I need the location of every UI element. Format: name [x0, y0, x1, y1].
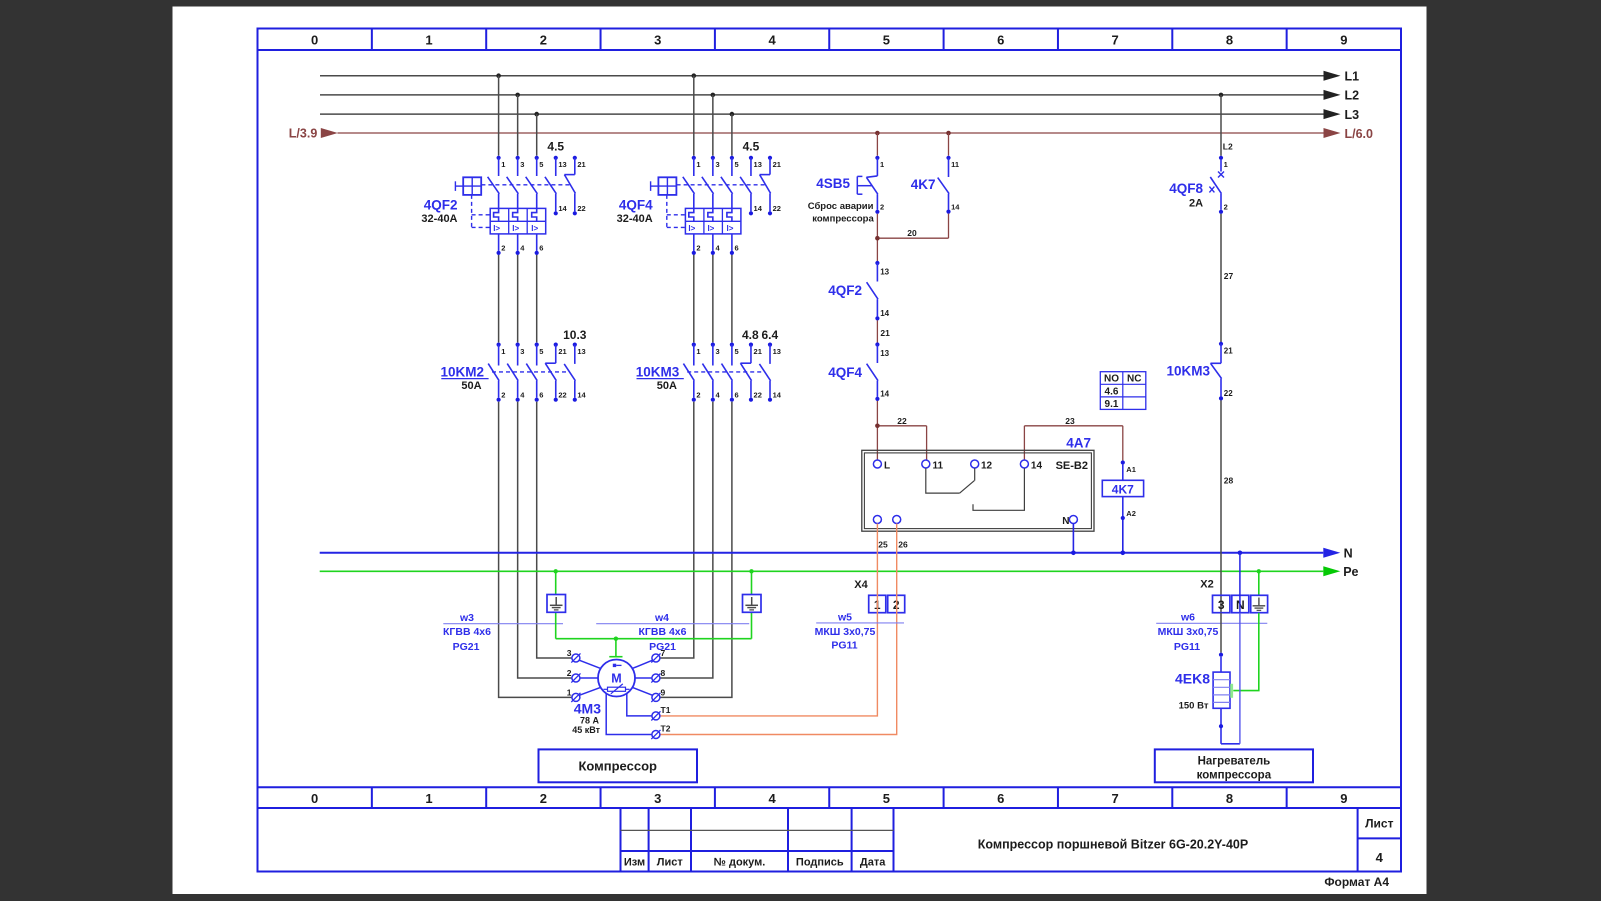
svg-text:3: 3 [567, 648, 572, 658]
svg-text:6.4: 6.4 [761, 328, 778, 342]
svg-text:150 Вт: 150 Вт [1179, 701, 1209, 712]
svg-text:13: 13 [773, 347, 781, 356]
4QF4 trip unit box [685, 208, 741, 234]
svg-text:N: N [1062, 516, 1069, 527]
motor terminal 7 [651, 648, 665, 663]
svg-text:3: 3 [715, 347, 719, 356]
svg-text:2: 2 [696, 243, 700, 252]
svg-text:N: N [1344, 547, 1353, 561]
motor lead T1 [627, 693, 652, 716]
X2 terminal 3 [1213, 595, 1230, 612]
svg-text:13: 13 [558, 160, 566, 169]
svg-text:Формат А4: Формат А4 [1324, 875, 1389, 889]
svg-text:5: 5 [883, 33, 890, 48]
junction L2/4QF4 [711, 93, 716, 98]
X4 terminal 2 [888, 595, 905, 612]
motor PE stub [609, 639, 622, 657]
svg-text:14: 14 [880, 390, 889, 399]
junction L/4K7 [946, 131, 951, 136]
X2 terminal PE [1251, 595, 1268, 612]
svg-text:45 кВт: 45 кВт [572, 725, 600, 735]
svg-text:I>: I> [531, 224, 538, 233]
10KM2 cross-reference 10.3 [563, 328, 587, 342]
wire 4QF4 pin2 to 10KM3 pin1 [693, 255, 695, 343]
10KM3 pole 3-4 [702, 343, 720, 402]
svg-text:компрессора: компрессора [812, 214, 874, 225]
10KM2 pole 3-4 [507, 343, 525, 402]
svg-text:X2: X2 [1200, 579, 1213, 591]
10KM3 auxiliary NC contact 21-22 [1166, 342, 1233, 401]
svg-text:4: 4 [768, 791, 776, 806]
svg-text:4QF2: 4QF2 [424, 198, 458, 213]
svg-text:22: 22 [754, 390, 762, 399]
wire 28 [1221, 400, 1234, 612]
wire node 22 [877, 401, 926, 460]
svg-text:21: 21 [880, 328, 890, 338]
wire L2 to 4QF4 pin3 [712, 95, 714, 156]
svg-text:Лист: Лист [657, 857, 684, 869]
svg-text:L2: L2 [1223, 142, 1233, 152]
4QF2 auxiliary contact in control chain [828, 261, 889, 321]
format label [1324, 875, 1389, 889]
sheet number block [1358, 808, 1401, 872]
4A7 terminal 14 [1020, 460, 1042, 472]
circuit breaker 4QF8 [1169, 156, 1228, 214]
svg-text:w3: w3 [459, 612, 474, 624]
svg-text:L2: L2 [1345, 89, 1360, 103]
svg-text:4.6: 4.6 [1105, 386, 1119, 397]
svg-text:78 А: 78 А [580, 716, 600, 726]
cable w6 МКШ 3x0,75 PG11 [1156, 611, 1267, 653]
svg-text:10KM3: 10KM3 [1166, 363, 1210, 378]
motor lead 7 [632, 660, 653, 669]
svg-text:32-40A: 32-40A [421, 213, 457, 225]
wire 10KM2 pin4 to motor pin2 [518, 402, 572, 678]
svg-text:21: 21 [558, 347, 566, 356]
svg-text:I>: I> [707, 224, 714, 233]
10KM3 auxiliary NC contact 21-22 [740, 343, 761, 402]
junction Pe/X2 [1257, 569, 1261, 573]
top ruler [258, 29, 1402, 51]
wire L to 4SB5 pin1 [876, 133, 878, 156]
wire node 21 [877, 320, 890, 342]
wire 10KM3 pin2 to motor pin7 [660, 402, 694, 658]
junction L/4SB5 [875, 131, 880, 136]
svg-text:1: 1 [425, 33, 432, 48]
svg-text:3: 3 [715, 160, 719, 169]
svg-text:22: 22 [773, 204, 781, 213]
motor lead 8 [635, 677, 652, 679]
wire 4QF4 pin6 to 10KM3 pin5 [731, 255, 733, 343]
svg-text:T1: T1 [661, 705, 671, 715]
4QF2 pole 3-4 [507, 156, 526, 255]
svg-text:L1: L1 [1345, 70, 1360, 84]
svg-text:14: 14 [577, 390, 586, 399]
junction node 22 [875, 424, 880, 429]
junction L2/4QF8 [1219, 93, 1224, 98]
svg-text:L: L [884, 461, 890, 472]
wire 10KM2 pin2 to motor pin1 [499, 402, 572, 698]
wire 4A7 terminal 25 to motor T1 [660, 524, 877, 716]
svg-text:Pe: Pe [1343, 565, 1358, 579]
protection module 4A7 SE-B2 [862, 436, 1094, 532]
function box Компрессор [539, 749, 698, 782]
wire Pe to X2 PE [1258, 571, 1260, 612]
svg-text:КГВВ 4x6: КГВВ 4x6 [639, 626, 687, 638]
svg-text:Дата: Дата [860, 857, 886, 869]
svg-text:26: 26 [898, 539, 908, 549]
svg-text:I>: I> [688, 224, 695, 233]
wire 4QF2 pin4 to 10KM2 pin3 [517, 255, 519, 343]
svg-text:1: 1 [880, 160, 884, 169]
svg-text:1: 1 [567, 687, 572, 697]
10KM3 auxiliary NO contact 13-14 [759, 343, 781, 402]
junction 4K7 neutral [1121, 551, 1126, 556]
4QF4 auxiliary NC contact 21-22 [760, 156, 781, 216]
wire L3 to 4QF2 pin5 [536, 114, 538, 156]
wire 10KM3 pin4 to motor pin8 [660, 402, 713, 678]
circuit breaker 4QF2 [421, 198, 457, 226]
svg-text:Подпись: Подпись [796, 857, 844, 869]
10KM3 cross-reference 6.4 [761, 328, 778, 342]
wire L1 to 4QF4 pin1 [693, 76, 695, 156]
contactor 10KM2 [440, 365, 484, 393]
svg-text:9: 9 [1340, 791, 1347, 806]
circuit breaker 4QF4 [617, 198, 654, 226]
svg-text:I>: I> [727, 224, 734, 233]
svg-text:w5: w5 [837, 611, 852, 623]
svg-text:7: 7 [1112, 791, 1119, 806]
junction node 20 [875, 236, 880, 241]
svg-text:4QF2: 4QF2 [828, 283, 862, 298]
terminal strip X4 label [854, 579, 868, 591]
svg-text:22: 22 [897, 416, 907, 426]
wire L2 to 4QF2 pin3 [517, 95, 519, 156]
svg-text:10KM3: 10KM3 [636, 365, 680, 380]
svg-text:32-40A: 32-40A [617, 213, 653, 225]
svg-text:50A: 50A [657, 380, 677, 392]
4QF4 cross-reference 4.5 [743, 140, 760, 154]
wire node 23 [1024, 416, 1122, 460]
wire 4K7 A2 to neutral [1122, 520, 1124, 553]
svg-text:7: 7 [1112, 33, 1119, 48]
bottom ruler [258, 787, 1402, 808]
svg-text:Изм: Изм [624, 857, 645, 869]
4QF2 pole 1-2 [488, 156, 506, 255]
wire PE to heater body [1233, 613, 1259, 691]
control feeder line L/3.9 to L/6.0 [289, 127, 1373, 141]
svg-text:1: 1 [696, 160, 700, 169]
title block table [621, 808, 894, 872]
4A7 terminal N [1062, 516, 1077, 528]
wire L2 tap to 4QF8 [1221, 95, 1233, 156]
motor lead 3 [579, 660, 601, 669]
junction Pe/ground w3 [554, 569, 558, 573]
svg-text:I>: I> [493, 224, 500, 233]
svg-text:4EK8: 4EK8 [1175, 671, 1210, 687]
power line L3 [320, 108, 1359, 122]
svg-text:4K7: 4K7 [911, 177, 936, 192]
wire X2 N to heater [1239, 613, 1241, 744]
svg-text:10KM2: 10KM2 [440, 365, 484, 380]
svg-text:Сброс аварии: Сброс аварии [808, 201, 874, 212]
svg-text:13: 13 [880, 268, 889, 277]
svg-text:A2: A2 [1126, 509, 1136, 518]
title text Компрессор поршневой Bitzer 6G-20.2Y-40P [978, 838, 1248, 852]
svg-text:1: 1 [1224, 160, 1228, 169]
svg-text:3: 3 [520, 160, 524, 169]
junction L3/4QF2 [534, 112, 539, 117]
svg-text:13: 13 [754, 160, 762, 169]
10KM2 pole 1-2 [488, 343, 505, 402]
svg-text:4QF4: 4QF4 [619, 198, 653, 213]
svg-text:Компрессор поршневой Bitzer 6G: Компрессор поршневой Bitzer 6G-20.2Y-40P [978, 838, 1248, 852]
svg-text:8: 8 [1226, 791, 1233, 806]
svg-text:10.3: 10.3 [563, 328, 587, 342]
svg-text:4.8: 4.8 [742, 328, 759, 342]
svg-text:NC: NC [1127, 374, 1141, 385]
10KM2 auxiliary NO contact 13-14 [564, 343, 586, 402]
4QF2 mechanical linkage [472, 185, 570, 228]
cable w3 КГВВ 4x6 PG21 [443, 612, 563, 653]
motor terminal 8 [651, 668, 665, 683]
svg-text:11: 11 [933, 461, 944, 472]
svg-text:14: 14 [754, 204, 763, 213]
svg-text:3: 3 [654, 33, 661, 48]
10KM3 cross-reference 4.8 [742, 328, 759, 342]
svg-text:21: 21 [773, 160, 781, 169]
ground symbol box left [547, 595, 566, 613]
svg-text:2: 2 [540, 791, 547, 806]
svg-text:1: 1 [696, 347, 700, 356]
svg-text:МКШ 3x0,75: МКШ 3x0,75 [815, 626, 876, 638]
power line L2 [320, 89, 1359, 103]
wire 4QF4 pin4 to 10KM3 pin3 [712, 255, 714, 343]
ground conductor right [751, 571, 753, 638]
svg-text:21: 21 [577, 160, 585, 169]
svg-text:L/3.9: L/3.9 [289, 127, 318, 141]
svg-text:4QF4: 4QF4 [828, 365, 862, 380]
junction heater top [1219, 653, 1223, 657]
4QF2 cross-reference 4.5 [547, 140, 564, 154]
junction earth/motor [614, 637, 618, 641]
junction L1/4QF2 [496, 73, 501, 78]
4QF4 auxiliary NO contact 13-14 [740, 156, 763, 216]
svg-text:компрессора: компрессора [1197, 769, 1272, 781]
neutral line N [320, 547, 1353, 561]
svg-text:20: 20 [907, 228, 917, 238]
motor terminal 2 [567, 668, 581, 683]
10KM2 pole 5-6 [526, 343, 543, 402]
junction Pe/ground w4 [749, 569, 753, 573]
wire L1 to 4QF2 pin1 [498, 76, 500, 156]
svg-text:M: M [611, 672, 621, 686]
cable w4 КГВВ 4x6 PG21 [596, 612, 749, 653]
junction L1/4QF4 [692, 73, 697, 78]
4QF2 auxiliary NO contact 13-14 [545, 156, 568, 216]
svg-text:2: 2 [696, 390, 700, 399]
svg-text:14: 14 [773, 390, 782, 399]
svg-text:w6: w6 [1180, 611, 1195, 623]
svg-text:8: 8 [1226, 33, 1233, 48]
motor lead 2 [580, 677, 598, 679]
4QF2 pole 5-6 [526, 156, 544, 255]
svg-text:2: 2 [880, 203, 884, 212]
motor 4M3 [572, 660, 635, 736]
svg-text:9: 9 [1340, 33, 1347, 48]
cable w5 МКШ 3x0,75 PG11 [815, 611, 904, 651]
svg-text:T2: T2 [661, 723, 671, 733]
heater 4EK8 [1175, 657, 1233, 712]
motor terminal T1 [651, 705, 670, 721]
svg-text:Лист: Лист [1365, 817, 1393, 831]
svg-text:2: 2 [501, 390, 505, 399]
earth bus to motor [556, 638, 752, 640]
svg-text:3: 3 [654, 791, 661, 806]
4A7 terminal L [873, 460, 890, 472]
junction L3/4QF4 [730, 112, 735, 117]
motor terminal 9 [651, 687, 665, 702]
4A7 terminal 12 [971, 460, 993, 472]
heater bottom wire [1219, 708, 1240, 744]
svg-text:13: 13 [577, 347, 585, 356]
4QF4 mechanical linkage [667, 185, 765, 228]
svg-text:NO: NO [1104, 374, 1119, 385]
drawing frame border [258, 29, 1402, 872]
svg-text:5: 5 [735, 347, 739, 356]
svg-text:Нагреватель: Нагреватель [1198, 755, 1271, 767]
wire 10KM3 pin6 to motor pin9 [660, 402, 732, 698]
svg-text:22: 22 [1224, 389, 1233, 398]
svg-text:4A7: 4A7 [1066, 436, 1091, 451]
4QF4 pole 3-4 [702, 156, 721, 255]
svg-text:6: 6 [997, 33, 1004, 48]
svg-text:2A: 2A [1189, 198, 1203, 210]
4QF4 pole 5-6 [721, 156, 739, 255]
svg-text:13: 13 [880, 349, 889, 358]
svg-text:L3: L3 [1345, 108, 1360, 122]
wire L to 4K7 pin11 [948, 133, 950, 156]
svg-text:6: 6 [735, 243, 739, 252]
wire 27 [1221, 214, 1234, 343]
svg-text:4.5: 4.5 [547, 140, 564, 154]
svg-text:4QF8: 4QF8 [1169, 181, 1203, 196]
wire 10KM2 pin6 to motor pin3 [537, 402, 572, 658]
4A7 internal changeover contact [926, 468, 1025, 510]
wire 4QF2 pin6 to 10KM2 pin5 [536, 255, 538, 343]
wire node 20 [877, 214, 948, 261]
svg-text:0: 0 [311, 791, 318, 806]
svg-text:6: 6 [539, 243, 543, 252]
terminal strip X2 label [1200, 579, 1213, 591]
svg-text:21: 21 [754, 347, 762, 356]
svg-text:14: 14 [1031, 461, 1043, 472]
svg-text:1: 1 [501, 160, 505, 169]
wire L3 to 4QF4 pin5 [731, 114, 733, 156]
svg-text:14: 14 [558, 204, 567, 213]
svg-text:5: 5 [883, 791, 890, 806]
svg-text:SE-B2: SE-B2 [1056, 460, 1088, 472]
svg-text:14: 14 [880, 309, 889, 318]
svg-text:X4: X4 [854, 579, 868, 591]
4A7 terminal 26 [893, 516, 908, 550]
svg-text:3: 3 [520, 347, 524, 356]
junction 4A7 N neutral [1071, 551, 1076, 556]
power line L1 [320, 70, 1359, 84]
junction neutral/X2 [1238, 551, 1243, 556]
svg-text:5: 5 [735, 160, 739, 169]
4A7 terminal 11 [922, 460, 944, 472]
wire X2-3 to heater [1220, 613, 1222, 653]
page background [173, 7, 1427, 895]
pushbutton 4SB5 [808, 156, 884, 225]
motor terminal 1 [567, 687, 581, 702]
svg-text:PG21: PG21 [453, 641, 480, 653]
svg-text:11: 11 [951, 160, 959, 169]
4QF4 auxiliary contact in control chain [828, 342, 889, 401]
svg-text:Компрессор: Компрессор [578, 758, 657, 773]
svg-text:3: 3 [1218, 598, 1225, 612]
svg-text:4.5: 4.5 [743, 140, 760, 154]
ground conductor left [555, 571, 557, 638]
4K7 contact cross-reference table NO/NC [1100, 372, 1146, 410]
10KM3 pole 1-2 [683, 343, 700, 402]
svg-text:МКШ 3x0,75: МКШ 3x0,75 [1158, 626, 1219, 638]
10KM3 pole 5-6 [722, 343, 739, 402]
svg-text:PG11: PG11 [831, 640, 857, 652]
wire 4QF2 pin2 to 10KM2 pin1 [498, 255, 500, 343]
10KM2 auxiliary NC contact 21-22 [545, 343, 566, 402]
svg-text:4: 4 [768, 33, 776, 48]
svg-text:9: 9 [661, 687, 666, 697]
svg-text:4K7: 4K7 [1112, 482, 1134, 496]
motor terminal 3 [567, 648, 581, 663]
svg-text:4: 4 [1376, 850, 1384, 865]
motor lead 1 [579, 687, 601, 695]
svg-text:50A: 50A [461, 380, 481, 392]
svg-text:2: 2 [1224, 203, 1228, 212]
4QF2 auxiliary NC contact 21-22 [564, 156, 585, 216]
svg-text:КГВВ 4x6: КГВВ 4x6 [443, 626, 491, 638]
junction L2/4QF2 [515, 93, 520, 98]
relay contact 4K7 11-14 [911, 156, 961, 214]
svg-text:25: 25 [878, 539, 888, 549]
svg-text:4M3: 4M3 [574, 701, 601, 717]
svg-text:2: 2 [567, 668, 572, 678]
protective earth line Pe [320, 565, 1359, 579]
svg-text:A1: A1 [1126, 465, 1136, 474]
svg-text:6: 6 [997, 791, 1004, 806]
4A7 terminal 25 [873, 516, 888, 550]
svg-text:6: 6 [735, 390, 739, 399]
svg-text:6: 6 [539, 390, 543, 399]
svg-text:7: 7 [661, 648, 666, 658]
ground symbol box right [743, 595, 762, 613]
svg-text:5: 5 [539, 160, 543, 169]
4QF2 manual operator [455, 177, 481, 195]
svg-text:0: 0 [311, 33, 318, 48]
svg-text:1: 1 [425, 791, 432, 806]
wire neutral to X2 N [1239, 553, 1241, 613]
motor lead T2 [606, 693, 652, 735]
svg-text:12: 12 [981, 461, 993, 472]
svg-text:2: 2 [540, 33, 547, 48]
svg-text:1: 1 [501, 347, 505, 356]
svg-text:8: 8 [661, 668, 666, 678]
svg-text:I>: I> [512, 224, 519, 233]
svg-text:w4: w4 [654, 612, 669, 624]
function box Нагреватель компрессора [1155, 749, 1313, 782]
